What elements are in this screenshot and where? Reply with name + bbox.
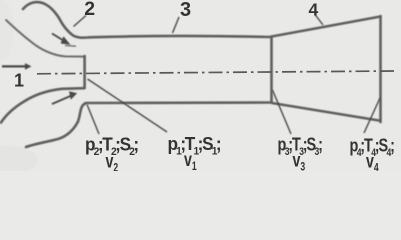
centerline <box>37 71 396 74</box>
arrow upper flow into throat <box>52 34 65 42</box>
wire diffuser entrance vertical <box>270 38 273 103</box>
svg-text:3: 3 <box>180 0 191 21</box>
arrow lower flow into throat <box>52 96 71 104</box>
wire outer top wall: inlet flare, pipe top, diffuser top <box>23 2 381 38</box>
wire diffuser exit plane vertical <box>379 16 382 122</box>
leader line for label 3 <box>173 17 180 33</box>
leader line for label 4 <box>315 15 323 26</box>
leader line for p2 <box>87 105 99 135</box>
leader line for label 2 <box>74 16 87 27</box>
wire outer bottom flare and pipe bottom wall <box>26 103 271 148</box>
svg-text:4: 4 <box>309 0 319 19</box>
svg-text:2: 2 <box>84 0 95 20</box>
wire inner bottom bell wall <box>1 88 84 122</box>
wire inner top bell wall <box>6 20 84 57</box>
svg-text:1: 1 <box>14 71 24 91</box>
wire diffuser cone bottom wall <box>272 103 379 121</box>
leader line for p3 <box>273 90 292 134</box>
wire throat exit plane vertical <box>83 56 86 88</box>
leader line for p1 <box>88 79 168 132</box>
leader line for p4 <box>364 98 380 133</box>
arrow flow inlet at label 1 <box>2 65 25 67</box>
